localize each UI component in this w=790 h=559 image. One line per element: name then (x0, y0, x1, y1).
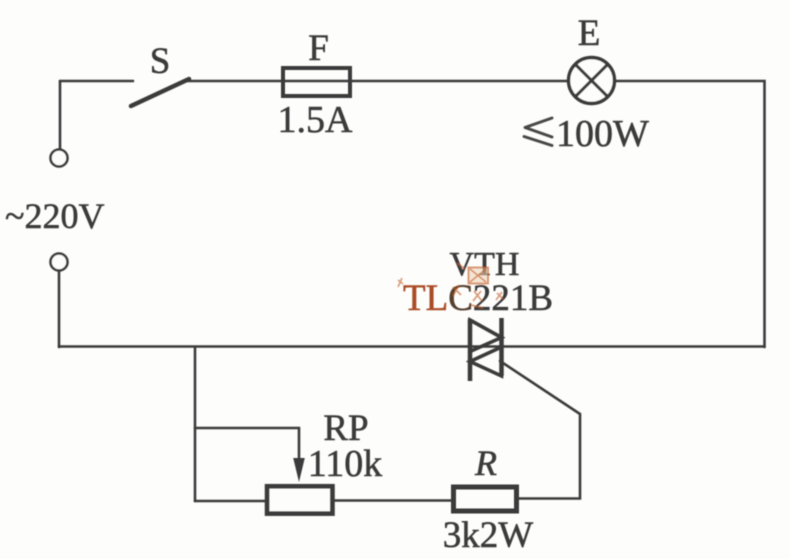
svg-text:~220V: ~220V (5, 196, 104, 236)
svg-text:100W: 100W (556, 113, 649, 155)
svg-text:S: S (150, 41, 171, 82)
svg-text:F: F (308, 28, 329, 69)
svg-text:3k2W: 3k2W (443, 515, 534, 556)
svg-text:110k: 110k (308, 443, 383, 485)
svg-text:R: R (474, 443, 497, 483)
svg-text:1.5A: 1.5A (278, 99, 354, 141)
svg-text:E: E (578, 13, 601, 54)
